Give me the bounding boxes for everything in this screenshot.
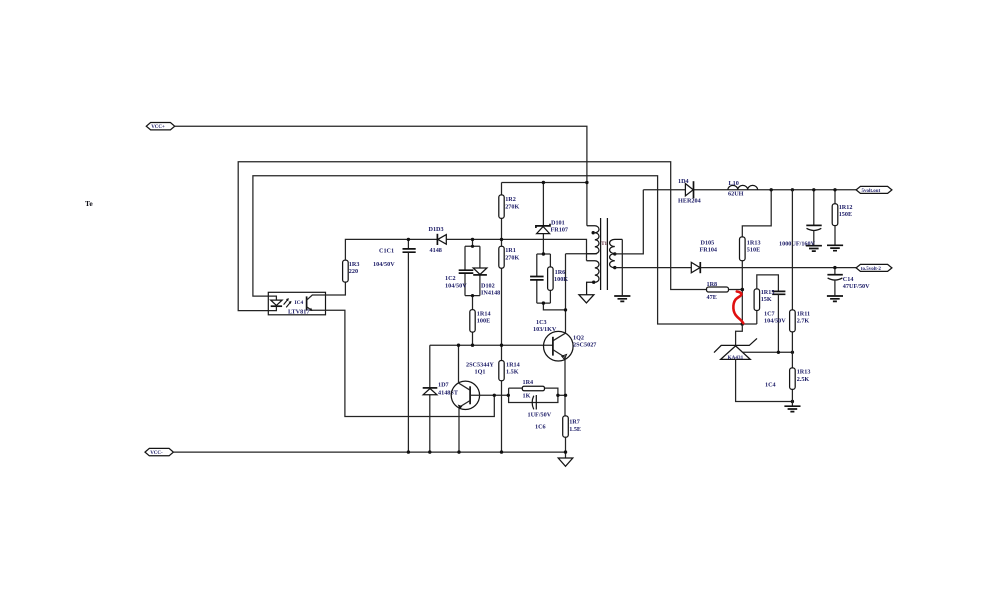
- wire secondary bottom to output 2: [615, 267, 691, 269]
- wire snubber bottom to collector node: [543, 303, 565, 310]
- junction dots middle: [471, 238, 474, 241]
- transformer T1 secondary winding: [610, 239, 623, 269]
- svg-text:D101: D101: [551, 220, 565, 227]
- svg-text:100E: 100E: [477, 318, 490, 325]
- wire KA431 anode to ground rail: [736, 359, 793, 401]
- resistor 1R14 100E: [470, 310, 491, 333]
- svg-text:1C4: 1C4: [765, 382, 776, 389]
- svg-text:D102: D102: [481, 283, 495, 290]
- wire 1R4 box to emitter: [558, 394, 566, 396]
- resistor 1R8 47E: [707, 281, 743, 301]
- svg-text:510E: 510E: [747, 247, 760, 254]
- net flag VCC-: [145, 448, 173, 456]
- svg-text:L10: L10: [729, 180, 739, 187]
- wire snubber top rail: [502, 182, 587, 184]
- capacitor 1000UF/160V: [779, 190, 822, 248]
- svg-text:1C6: 1C6: [535, 424, 546, 431]
- svg-text:47UF/50V: 47UF/50V: [843, 283, 870, 290]
- svg-text:1Q2: 1Q2: [573, 335, 584, 342]
- svg-text:270K: 270K: [505, 254, 519, 261]
- net flag to.5volt-2: [856, 264, 892, 272]
- svg-text:1R13: 1R13: [797, 369, 811, 376]
- svg-text:1R14: 1R14: [506, 362, 520, 369]
- svg-text:T1: T1: [601, 242, 607, 247]
- resistor 1R2: [499, 195, 520, 219]
- svg-text:2.7K: 2.7K: [797, 318, 810, 325]
- svg-text:47E: 47E: [707, 294, 717, 301]
- net flag 5volt.out: [856, 186, 892, 194]
- diode D101 FR107: [536, 183, 568, 255]
- wire to.5volt-2 rail: [700, 267, 856, 269]
- node C1C1 top: [407, 238, 410, 241]
- svg-text:VCC+: VCC+: [151, 125, 165, 130]
- svg-text:to.5volt-2: to.5volt-2: [861, 267, 882, 272]
- svg-text:2SC5344Y: 2SC5344Y: [466, 362, 494, 369]
- svg-text:100K: 100K: [554, 276, 568, 283]
- svg-text:1R4: 1R4: [523, 379, 534, 386]
- svg-text:62UH: 62UH: [728, 191, 744, 198]
- resistor 1R15 15K and capacitor 1C7: [754, 275, 786, 352]
- svg-text:4148ST: 4148ST: [438, 389, 459, 396]
- svg-text:2.5K: 2.5K: [797, 376, 810, 383]
- resistor 1R1: [499, 246, 520, 268]
- svg-text:1K: 1K: [523, 393, 531, 400]
- wire 1R2/1R1/1R14 vertical chain: [501, 183, 503, 453]
- transformer T1 feedback winding: [587, 259, 600, 295]
- svg-text:FR104: FR104: [700, 246, 718, 253]
- svg-text:270K: 270K: [505, 203, 519, 210]
- svg-text:220: 220: [349, 268, 358, 275]
- resistor 1R7: [563, 416, 581, 452]
- svg-text:150E: 150E: [839, 211, 852, 218]
- svg-text:4148: 4148: [430, 247, 442, 254]
- wire opto emitter to 1Q1 base node: [326, 310, 495, 416]
- svg-text:5volt.out: 5volt.out: [862, 189, 881, 194]
- svg-text:1R8: 1R8: [707, 281, 718, 288]
- ground (triangle) at bottom rail: [558, 452, 573, 466]
- red mark (highlight scribble): [733, 292, 743, 324]
- svg-text:1R3: 1R3: [349, 261, 360, 268]
- ground (earth) under C14: [827, 296, 843, 301]
- opto-coupler IC4 LTV817: [268, 292, 325, 315]
- wire collector vertical: [565, 254, 567, 333]
- wire primary bottom lead: [566, 253, 597, 255]
- svg-text:HER204: HER204: [678, 198, 701, 205]
- wire feedback inner loop (opto LED anode to 15K bottom): [253, 176, 757, 324]
- diode D105 FR104: [691, 240, 717, 274]
- svg-text:IN4148: IN4148: [481, 290, 500, 297]
- svg-text:1R14: 1R14: [477, 311, 491, 318]
- resistor 1R13 2.5K: [790, 352, 811, 401]
- ground (earth) under 1R12: [827, 245, 843, 250]
- inductor L10 62UH: [728, 180, 758, 198]
- wire secondary top to ground: [621, 239, 623, 295]
- wire 1C2 box bottom to 1R14: [472, 296, 474, 346]
- svg-text:104/50V: 104/50V: [445, 282, 467, 289]
- ground (triangle) under feedback winding: [579, 295, 594, 303]
- svg-text:1UF/50V: 1UF/50V: [528, 412, 552, 419]
- shunt regulator KA431: [714, 324, 757, 361]
- ground (earth) secondary: [614, 296, 630, 301]
- transformer T1 core: [601, 218, 608, 290]
- svg-text:1C3: 1C3: [536, 319, 547, 326]
- resistor 1R3: [343, 260, 360, 282]
- svg-text:FR107: FR107: [551, 227, 569, 234]
- svg-text:1D4: 1D4: [678, 178, 689, 185]
- junction dots on 5V rail: [770, 188, 773, 191]
- net flag VCC+: [146, 123, 174, 131]
- wire 1R3 top to base-drive rail: [345, 239, 586, 260]
- svg-text:1R1: 1R1: [505, 247, 516, 254]
- svg-text:1D7: 1D7: [438, 381, 449, 388]
- svg-text:2SC5027: 2SC5027: [573, 342, 596, 349]
- svg-text:104/50V: 104/50V: [764, 317, 786, 324]
- svg-text:1R2: 1R2: [505, 196, 516, 203]
- ground (earth) under 1000UF: [806, 246, 822, 251]
- ground (earth) under KA431 divider: [784, 406, 800, 411]
- svg-text:C1C1: C1C1: [379, 248, 394, 255]
- svg-text:1C2: 1C2: [445, 275, 456, 282]
- wire 1Q2 base rail: [430, 344, 553, 346]
- wire secondary tap to 1D4: [615, 190, 644, 254]
- wire VCC- bottom rail: [173, 451, 565, 453]
- svg-text:1R13: 1R13: [747, 240, 761, 247]
- capacitor 1C3 / resistor 1R6 snubber box: [530, 254, 568, 333]
- capacitor C1C1: [373, 239, 416, 452]
- resistor 1R11 2.7K: [790, 190, 811, 352]
- resistor 1R12: [832, 190, 852, 245]
- svg-text:1R11: 1R11: [797, 311, 810, 318]
- svg-text:1.5K: 1.5K: [506, 369, 519, 376]
- wire 5V rail to 1R13 510E: [742, 190, 771, 237]
- svg-text:1Q1: 1Q1: [475, 369, 486, 376]
- svg-text:15K: 15K: [761, 296, 772, 303]
- resistor 1R4 / capacitor 1C6 box: [509, 379, 558, 430]
- svg-text:1.5E: 1.5E: [569, 426, 581, 433]
- diode 1D4 HER204: [678, 178, 701, 205]
- svg-text:LTV817: LTV817: [288, 309, 309, 316]
- diode D1D3 4148: [429, 226, 447, 254]
- svg-text:IC4: IC4: [295, 300, 304, 306]
- wire feedback outer loop (opto LED cathode to 1R8): [238, 162, 706, 311]
- transistor 1Q2 2SC5027: [544, 331, 597, 415]
- wire ground stub: [791, 402, 793, 406]
- svg-text:1R6: 1R6: [555, 269, 566, 276]
- wire KA431 ref rail: [743, 351, 792, 353]
- transistor 1Q1 2SC5344Y: [451, 345, 508, 452]
- capacitor C14: [827, 268, 870, 296]
- svg-text:1R7: 1R7: [569, 419, 580, 426]
- wire 5volt output rail: [643, 189, 856, 191]
- resistor 1R14 1.5K: [499, 361, 520, 381]
- resistor 1R13 510E: [740, 237, 761, 290]
- svg-text:D1D3: D1D3: [429, 226, 444, 233]
- wire opto collector to 1R3: [326, 282, 346, 295]
- diode 1D7 4148ST: [423, 345, 459, 452]
- svg-text:104/50V: 104/50V: [373, 261, 395, 268]
- svg-text:Te: Te: [85, 199, 93, 208]
- capacitor 1C2 with diode D102 clamp box: [445, 239, 500, 296]
- wire 1R8 node down to KA431 cathode node: [741, 290, 743, 325]
- wire VCC+ to primary: [175, 126, 587, 226]
- svg-text:VCC-: VCC-: [150, 451, 163, 456]
- transformer T1 primary winding: [587, 226, 599, 254]
